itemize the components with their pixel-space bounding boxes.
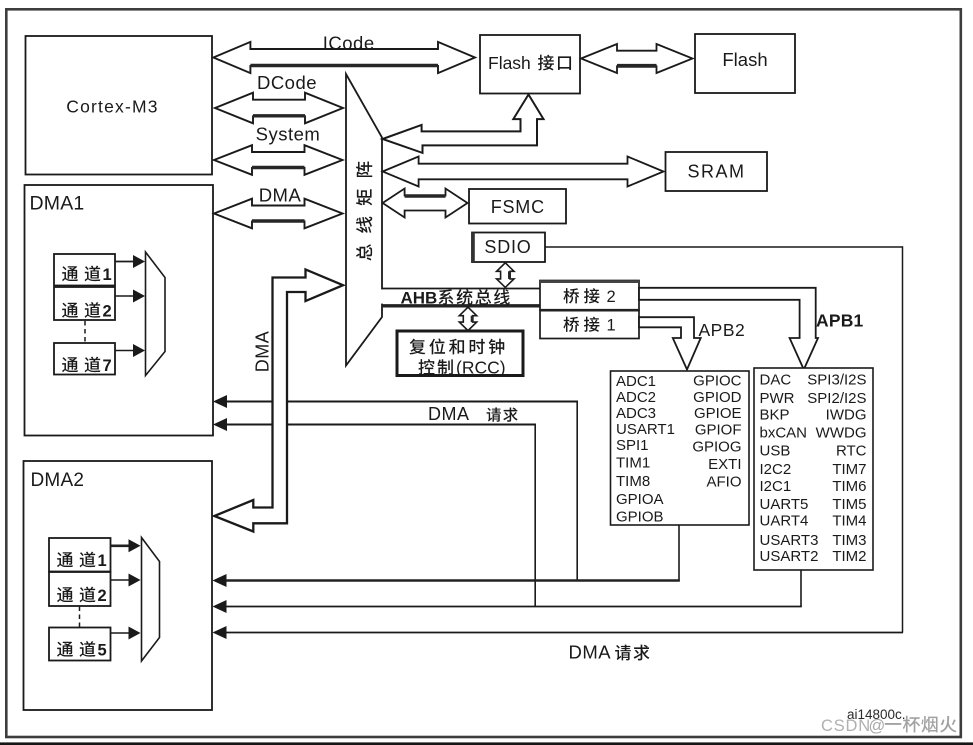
svg-text:RTC: RTC [836, 442, 867, 459]
svg-text:TIM4: TIM4 [832, 513, 866, 530]
block DMA2 channel 2 [49, 572, 111, 606]
block SDIO [472, 233, 545, 263]
block APB1 peripherals [754, 368, 873, 570]
svg-text:Flash: Flash [488, 53, 531, 73]
wire DMA1 ch1 arrow [115, 255, 145, 268]
label DCode [257, 72, 317, 93]
svg-text:FSMC: FSMC [491, 197, 545, 217]
block RCC [397, 331, 523, 378]
svg-text:(RCC): (RCC) [456, 358, 506, 378]
svg-text:I2C2: I2C2 [760, 461, 792, 478]
arrow bus matrix to FSMC [383, 189, 468, 218]
label ICode [323, 33, 375, 54]
svg-text:TIM1: TIM1 [616, 455, 650, 472]
wire APB2 stub [678, 525, 680, 581]
svg-text:1: 1 [103, 266, 112, 284]
wire SDIO to right rail [545, 246, 903, 632]
svg-text:DMA: DMA [253, 331, 273, 373]
svg-text:ADC3: ADC3 [616, 405, 656, 422]
svg-text:GPIOA: GPIOA [616, 491, 664, 508]
svg-text:GPIOG: GPIOG [692, 439, 741, 456]
svg-text:AFIO: AFIO [706, 474, 741, 491]
block DMA1 channel 7 [54, 343, 115, 375]
svg-text:USART3: USART3 [760, 532, 819, 549]
block FSMC [469, 189, 566, 224]
bus matrix polygon [346, 74, 382, 366]
label AHB system bus [401, 289, 510, 308]
svg-text:BKP: BKP [760, 406, 790, 423]
svg-text:1: 1 [607, 317, 616, 335]
svg-text:7: 7 [103, 357, 112, 375]
svg-text:AHB: AHB [401, 289, 438, 308]
wire DMA2 ch5 arrow [111, 627, 141, 640]
wire DMA2 request 1 [213, 574, 680, 587]
block DMA1 [25, 185, 214, 436]
block SRAM [666, 152, 768, 191]
svg-text:CSDN: CSDN [821, 717, 871, 735]
svg-text:EXTI: EXTI [708, 456, 741, 473]
svg-text:DMA: DMA [259, 185, 302, 206]
svg-text:ADC1: ADC1 [616, 373, 656, 390]
svg-text:GPIOB: GPIOB [616, 509, 664, 526]
svg-text:IWDG: IWDG [826, 406, 867, 423]
label APB2 [699, 320, 746, 340]
svg-text:1: 1 [98, 552, 107, 570]
arrow System [214, 145, 343, 175]
label DMA vertical [253, 331, 273, 373]
svg-text:SDIO: SDIO [484, 237, 531, 257]
arrow AHB to RCC [459, 307, 476, 330]
svg-text:2: 2 [98, 587, 107, 605]
label ai14800c [847, 707, 906, 722]
arrow bus matrix to Flash interface [383, 95, 544, 153]
svg-text:TIM6: TIM6 [832, 478, 866, 495]
block bridge2 [540, 281, 639, 311]
block APB2 peripherals [611, 371, 750, 526]
mux trapezoid DMA2 [142, 538, 160, 662]
svg-text:UART5: UART5 [760, 496, 809, 513]
svg-text:DAC: DAC [760, 372, 792, 389]
wire DMA2 request 3 [213, 626, 904, 639]
label System [256, 124, 321, 145]
svg-text:2: 2 [607, 288, 616, 306]
block DMA2 channel 1 [49, 538, 111, 572]
arrow DMA bus [214, 199, 343, 229]
svg-text:APB2: APB2 [699, 320, 746, 340]
svg-text:GPIOE: GPIOE [694, 405, 742, 422]
block Cortex-M3 [26, 36, 213, 175]
svg-text:UART4: UART4 [760, 513, 809, 530]
svg-text:TIM2: TIM2 [832, 548, 866, 565]
arrow bridge2 to APB1 [639, 288, 818, 370]
bottom border line [0, 742, 973, 745]
svg-text:@: @ [869, 717, 886, 735]
bus matrix label [356, 162, 372, 261]
svg-text:APB1: APB1 [816, 311, 864, 331]
label DMA request lower [569, 642, 650, 663]
watermark CSDN [821, 716, 957, 735]
svg-text:5: 5 [98, 642, 107, 660]
svg-text:DMA1: DMA1 [30, 193, 85, 215]
svg-text:PWR: PWR [760, 390, 795, 407]
svg-text:System: System [256, 124, 321, 145]
svg-text:GPIOC: GPIOC [693, 373, 742, 390]
wire APB1 stub [800, 570, 802, 607]
svg-text:TIM3: TIM3 [832, 532, 866, 549]
AHB bus band [377, 289, 540, 306]
wire DMA2 ch1 arrow [111, 539, 141, 552]
arrow bridge1 to APB2 [639, 317, 701, 369]
block Flash interface [480, 35, 580, 94]
svg-text:USART1: USART1 [616, 421, 675, 438]
block DMA1 channel 1 [54, 254, 115, 286]
svg-text:USB: USB [760, 442, 791, 459]
svg-text:DCode: DCode [257, 72, 317, 93]
svg-text:DMA: DMA [569, 642, 612, 663]
svg-text:GPIOD: GPIOD [693, 389, 742, 406]
svg-text:ADC2: ADC2 [616, 389, 656, 406]
mux trapezoid DMA1 [146, 252, 166, 376]
arrow bus matrix to DMA2 [214, 270, 343, 532]
wire DMA2 ch2 arrow [111, 574, 141, 587]
block Flash [695, 34, 795, 93]
svg-text:Cortex-M3: Cortex-M3 [66, 97, 158, 117]
svg-text:WWDG: WWDG [816, 424, 867, 441]
wire DMA1 ch2 arrow [115, 290, 145, 303]
block DMA2 channel 5 [49, 628, 111, 661]
svg-text:2: 2 [103, 303, 112, 321]
label DMA request upper [428, 404, 518, 424]
svg-text:DMA2: DMA2 [31, 470, 85, 491]
svg-text:Flash: Flash [722, 49, 767, 70]
svg-text:GPIOF: GPIOF [695, 422, 742, 439]
wire DMA1 request 2 [213, 418, 536, 607]
svg-text:SRAM: SRAM [687, 162, 745, 182]
dashed link DMA2 channels [79, 607, 81, 628]
svg-text:TIM8: TIM8 [616, 473, 650, 490]
svg-text:SPI1: SPI1 [616, 437, 649, 454]
wire DMA2 request 2 [213, 600, 802, 613]
label DMA bus [259, 185, 302, 206]
svg-text:DMA: DMA [428, 404, 470, 424]
svg-text:SPI3/I2S: SPI3/I2S [807, 372, 866, 389]
arrow SDIO to AHB [497, 263, 514, 288]
wire DMA1 ch7 arrow [115, 344, 145, 357]
svg-text:TIM7: TIM7 [832, 461, 866, 478]
svg-text:USART2: USART2 [760, 548, 819, 565]
svg-text:bxCAN: bxCAN [760, 424, 808, 441]
svg-text:TIM5: TIM5 [832, 496, 866, 513]
svg-text:I2C1: I2C1 [760, 478, 792, 495]
arrow Flash interface to Flash [581, 44, 693, 73]
block DMA2 [24, 461, 213, 710]
wire DMA1 request 1 [213, 395, 578, 581]
label APB1 [816, 311, 864, 331]
arrow DCode [215, 93, 343, 124]
arrow bus matrix to SRAM [383, 157, 664, 187]
dashed link DMA1 channels [84, 321, 86, 343]
svg-text:SPI2/I2S: SPI2/I2S [807, 390, 866, 407]
block DMA1 channel 2 [54, 287, 115, 321]
block bridge1 [540, 310, 639, 338]
arrow ICode [213, 42, 475, 73]
